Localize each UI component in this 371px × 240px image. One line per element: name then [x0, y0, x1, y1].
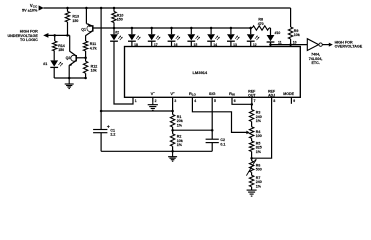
- svg-text:4.7k: 4.7k: [90, 46, 97, 50]
- node anode-R10: [113, 27, 116, 30]
- svg-text:2.2: 2.2: [110, 132, 115, 136]
- node REF ADJ junction: [250, 157, 253, 160]
- svg-text:500: 500: [256, 168, 262, 172]
- svg-text:1: 1: [135, 99, 137, 103]
- node output-R14: [53, 34, 56, 37]
- wire V+ horizontal: [101, 110, 173, 112]
- ground chain: [251, 189, 253, 192]
- svg-text:3: 3: [174, 99, 176, 103]
- svg-text:7: 7: [254, 99, 256, 103]
- LED pin 15: [190, 27, 193, 30]
- wire undervoltage output line: [48, 34, 69, 36]
- svg-text:Q2: Q2: [66, 56, 71, 60]
- resistor R14 150: [54, 35, 56, 41]
- svg-text:5V ±10%: 5V ±10%: [22, 9, 38, 13]
- node R1-R2: [171, 129, 174, 132]
- svg-text:1%: 1%: [256, 150, 262, 154]
- svg-text:ETC.: ETC.: [312, 61, 320, 65]
- wire pin 6 RHI to REF OUT: [232, 97, 252, 104]
- resistor R1 20k 1%: [172, 111, 174, 115]
- wire pin 9 MODE stub: [290, 97, 292, 104]
- potentiometer R6 500: [249, 161, 253, 173]
- VCC input arrow: [39, 5, 44, 10]
- svg-text:1%: 1%: [256, 119, 262, 123]
- svg-text:#1: #1: [43, 62, 47, 66]
- svg-text:1%: 1%: [256, 184, 262, 188]
- node VCC-R10: [113, 7, 116, 10]
- svg-text:2: 2: [155, 99, 157, 103]
- capacitor C1 2.2: [100, 111, 102, 130]
- resistor R3 240 1%: [251, 104, 253, 109]
- node V+ pin3: [171, 110, 174, 113]
- node pin10: [289, 43, 292, 46]
- svg-text:470: 470: [258, 22, 264, 26]
- wire ground line left: [54, 77, 85, 79]
- trimpot R4 100: [249, 127, 253, 139]
- node gnd-R2: [171, 150, 174, 153]
- resistor R11 4.7k: [83, 41, 87, 51]
- svg-text:10k: 10k: [294, 33, 300, 37]
- wire pin 4 RLO to R4 wiper: [192, 97, 246, 132]
- svg-text:1%: 1%: [177, 143, 183, 147]
- svg-text:R8: R8: [258, 17, 263, 21]
- svg-text:150: 150: [72, 19, 78, 23]
- svg-text:0.1: 0.1: [220, 142, 225, 146]
- undervoltage output arrow: [43, 33, 48, 38]
- svg-text:RHI: RHI: [229, 91, 235, 97]
- svg-text:TO LOGIC: TO LOGIC: [20, 38, 38, 42]
- svg-text:6: 6: [234, 99, 236, 103]
- svg-text:Q1: Q1: [81, 27, 86, 31]
- node VCC-R13: [66, 7, 69, 10]
- node VCC-V+: [100, 7, 103, 10]
- svg-text:150: 150: [58, 48, 64, 52]
- svg-text:LM3914: LM3914: [192, 70, 207, 75]
- resistor R8 470: [249, 27, 252, 30]
- LED pin 18: [131, 27, 134, 30]
- svg-text:8: 8: [273, 99, 275, 103]
- wire to inverter: [291, 44, 307, 46]
- svg-text:OVERVOLTAGE: OVERVOLTAGE: [335, 45, 363, 49]
- resistor R10 150: [113, 8, 115, 12]
- IC U1 LM3914: [125, 47, 301, 98]
- svg-text:MODE: MODE: [283, 92, 294, 96]
- LED pin 13: [230, 27, 233, 30]
- node VCC-Q1: [85, 7, 88, 10]
- svg-text:RLO: RLO: [189, 91, 197, 97]
- svg-text:9: 9: [293, 99, 295, 103]
- wire divider to SIG: [173, 129, 213, 131]
- svg-text:4: 4: [194, 99, 196, 103]
- node gnd-R12: [84, 77, 87, 80]
- node output-R13: [66, 34, 69, 37]
- node SIG junction: [211, 129, 214, 132]
- wire LED2 cathode to pin 1: [114, 41, 133, 104]
- LED pin 14: [210, 27, 213, 30]
- svg-text:#10: #10: [275, 31, 281, 35]
- ground left: [68, 78, 70, 84]
- ground bottom middle: [172, 151, 174, 156]
- wire V+ column: [100, 8, 102, 111]
- node REF OUT: [251, 103, 254, 106]
- svg-text:SIG: SIG: [209, 92, 216, 96]
- svg-text:10k: 10k: [91, 69, 97, 73]
- resistor R12 10k: [85, 58, 87, 62]
- svg-text:OUT: OUT: [248, 93, 256, 97]
- svg-text:150: 150: [117, 18, 123, 22]
- wire pin 5 SIG column: [211, 97, 213, 139]
- wire ground line bottom: [101, 150, 212, 152]
- wire LED anode rail: [93, 27, 251, 29]
- resistor R7 240 1%: [251, 172, 253, 175]
- node V+ corner: [100, 110, 103, 113]
- LED pin 12: [249, 27, 252, 30]
- resistor R2 10k 1%: [172, 130, 174, 134]
- svg-text:ADJ: ADJ: [268, 93, 275, 97]
- wire pin 7 REF OUT: [251, 97, 253, 104]
- resistor R13 150: [67, 8, 69, 12]
- wire pin11 to pin10: [271, 44, 291, 46]
- node gnd-Q2e: [68, 77, 71, 80]
- LED pin 16: [170, 27, 173, 30]
- svg-text:1%: 1%: [177, 123, 183, 127]
- wire pin 8 REF ADJ: [252, 97, 272, 158]
- node A Q2 base: [84, 57, 87, 60]
- pin 3 V+ wire: [172, 97, 174, 111]
- wire Q2 base: [76, 57, 85, 59]
- svg-text:100: 100: [256, 134, 262, 138]
- inverter U2 7404: [307, 39, 318, 51]
- capacitor C2 0.1: [206, 138, 219, 140]
- resistor R5 825 1%: [251, 138, 253, 141]
- resistor R9 10k: [290, 8, 292, 27]
- svg-text:#2: #2: [115, 31, 119, 35]
- LED 10: [270, 28, 272, 35]
- LED pin 17: [150, 27, 153, 30]
- svg-text:5: 5: [214, 99, 216, 103]
- wire VCC rail: [43, 7, 290, 9]
- pin 2 ground: [152, 97, 154, 102]
- svg-text:R9: R9: [294, 29, 299, 33]
- node LED10 pin11: [269, 43, 272, 46]
